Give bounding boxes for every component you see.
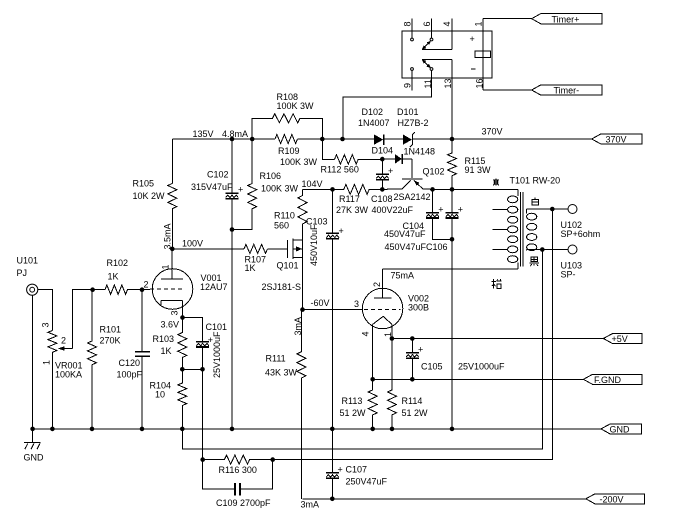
junction R116 right [270,457,275,462]
resistor R112 560 [322,139,382,164]
resistor R106 100K 3W [232,139,257,230]
tube V001 12AU7 envelope [152,269,193,310]
resistor R115 91 3W [448,139,457,189]
svg-text:Timer+: Timer+ [552,14,580,24]
svg-text:R111: R111 [266,354,286,364]
svg-text:450V47uFC106: 450V47uFC106 [385,242,448,252]
kanji orange marker [492,279,502,289]
svg-text:+: + [418,345,423,355]
svg-text:51 2W: 51 2W [402,408,429,418]
svg-text:560: 560 [274,221,289,231]
svg-text:C102: C102 [207,170,229,180]
transformer T101 primary winding [508,189,518,268]
svg-text:1K: 1K [161,346,172,356]
junction V001 grid node [140,287,145,292]
svg-text:4.8mA: 4.8mA [222,129,248,139]
junction GND C104/C106 [450,427,455,432]
resistor R101 270K [88,290,97,429]
svg-text:C107: C107 [346,465,368,475]
junction V002 pin4 / F.GND [370,377,375,382]
transistor Q102 2SA2142 PNP [382,159,432,189]
junction GND R104 [180,427,185,432]
relay common pin 4 with movable arm [422,19,452,50]
wire C101 node to feedback R116 [202,369,204,459]
svg-text:3: 3 [170,310,180,315]
relay contact pin 9 [411,68,414,91]
svg-text:25V1000uF: 25V1000uF [212,331,222,378]
svg-text:Q101: Q101 [277,261,299,271]
svg-text:3.5mA: 3.5mA [163,223,173,249]
svg-text:8: 8 [403,21,413,26]
svg-text:104V: 104V [302,179,323,189]
capacitor C101 25V1000uF electrolytic [183,318,214,370]
svg-text:270K: 270K [100,336,121,346]
junction SP- node [540,247,545,252]
svg-text:10: 10 [155,390,165,400]
wire relay pin16 to Timer- [483,89,532,91]
capacitor C102 315V47uF electrolytic [226,139,244,230]
svg-text:1: 1 [474,21,484,26]
wire -200V line [302,498,585,500]
svg-text:75mA: 75mA [391,271,415,281]
capacitor C120 100pF [135,290,150,429]
wire jack sleeve to GND [32,295,34,429]
relay common pin 13 with movable arm [422,59,452,78]
svg-text:100K 3W: 100K 3W [280,157,318,167]
svg-text:R117: R117 [339,194,360,204]
junction C102/R106 bottom [230,227,235,232]
wire jack to VR001 top [38,290,53,331]
connector flag +5V [603,334,642,345]
svg-text:+: + [458,205,463,215]
terminal U102 [568,205,577,214]
svg-text:GND: GND [610,425,631,435]
wire V002 pin4 to F.GND line [372,324,374,379]
svg-text:-200V: -200V [600,495,624,505]
junction V002 pin1 / +5V [390,336,395,341]
svg-text:16: 16 [475,78,485,88]
wire F.GND line [373,378,584,380]
svg-text:1K: 1K [245,263,256,273]
junction C107 at -200V [330,497,335,502]
svg-text:450V10uF: 450V10uF [309,224,319,266]
wire secondary top to U102 [527,208,568,210]
potentiometer VR001 100KA [48,290,93,429]
input jack U101 [27,284,38,295]
wire C102 bottom to GND rail [231,230,233,429]
junction R108/R106 node [250,137,255,142]
svg-text:GND: GND [24,453,45,463]
relay coil pins 1-16 [475,19,491,90]
junction C104 top [430,187,435,192]
svg-text:C101: C101 [206,322,228,332]
svg-text:1N4148: 1N4148 [404,147,436,157]
wire SP- return to star ground (line A) [182,250,542,450]
svg-text:1K: 1K [108,272,119,282]
svg-text:D102: D102 [362,107,384,117]
connector flag -200V [586,494,645,505]
svg-text:R110: R110 [274,211,295,221]
wire V002 plate to transformer primary [383,268,518,270]
coil polarity - [471,68,476,70]
junction GND C120 [140,427,145,432]
svg-text:+5V: +5V [612,334,628,344]
junction GND R113 [370,427,375,432]
svg-text:F.GND: F.GND [594,375,622,385]
kanji black marker [530,256,540,266]
transformer T101 secondary winding [527,209,537,251]
svg-text:+: + [238,184,243,194]
junction GND R101 [90,427,95,432]
svg-text:370V: 370V [482,127,503,137]
capacitor C106 450V47uF electrolytic [446,189,463,429]
wire 100V rail [172,248,244,250]
junction R115/C106 top [450,187,455,192]
svg-text:2SA2142: 2SA2142 [394,192,431,202]
svg-text:1N4007: 1N4007 [358,118,390,128]
svg-text:100KA: 100KA [55,370,82,380]
diode D104 1N4148 [382,154,412,164]
svg-text:1: 1 [42,360,52,365]
svg-text:SP-: SP- [561,270,576,280]
svg-text:300B: 300B [408,303,429,313]
junction C108 bottom [380,187,385,192]
svg-text:R114: R114 [402,396,423,406]
transformer core [521,192,524,267]
diode D102 1N4007 [374,134,403,144]
junction V001 cathode node [180,315,185,320]
svg-text:9: 9 [403,83,413,88]
resistor R108 (branch above rail) [252,114,322,139]
junction R103 bottom [180,367,185,372]
V002 filament [373,316,392,324]
wire V002 pin1 to +5V line [391,324,393,338]
capacitor C108 400V22uF electrolytic [376,159,393,189]
svg-text:10K 2W: 10K 2W [133,191,166,201]
svg-text:R113: R113 [342,396,363,406]
junction -60V node [300,307,305,312]
svg-text:4: 4 [361,331,371,336]
wire relay pin 13 down to 370V node [451,78,453,139]
junction D104 anode node [380,157,385,162]
svg-text:400V22uF: 400V22uF [372,205,414,215]
terminal U103 [568,245,577,254]
kanji white marker [532,198,538,205]
relay contact pin 11 [430,68,433,71]
svg-text:370V: 370V [606,135,627,145]
junction 100V node [170,247,175,252]
tube V002 300B envelope [362,288,402,328]
svg-text:R103: R103 [153,334,175,344]
junction C105 top [410,336,415,341]
svg-text:2: 2 [61,336,66,346]
svg-text:R112 560: R112 560 [321,164,359,174]
svg-text:100K 3W: 100K 3W [277,101,315,111]
resistor R114 51 2W [388,339,397,429]
svg-text:450V47uF: 450V47uF [384,229,426,239]
svg-text:2SJ181-S: 2SJ181-S [262,282,302,292]
svg-text:4: 4 [442,21,452,26]
svg-text:+: + [339,226,344,236]
svg-text:D101: D101 [397,107,419,117]
connector flag F.GND [583,374,642,385]
svg-text:Timer-: Timer- [554,86,580,96]
wire +5V line [392,338,604,340]
svg-text:C108: C108 [371,194,393,204]
capacitor C103 450V10uF electrolytic [326,189,344,429]
connector flag 370V [592,134,642,145]
relay contact pin 8 [411,19,414,41]
V001 plate [161,249,183,279]
transformer primary tap stubs [492,210,507,250]
junction C101 bottom [200,367,205,372]
svg-text:Q102: Q102 [423,167,445,177]
connector flag Timer+ [532,14,603,25]
wire feedback line R116 to SP+ (line B) [273,209,553,460]
svg-text:PJ: PJ [17,268,28,278]
resistor R116 300 [203,455,273,464]
relay K1 box [402,31,492,78]
svg-text:135V: 135V [193,129,214,139]
svg-text:+: + [338,464,343,474]
svg-text:C120: C120 [119,358,141,368]
svg-text:315V47uF: 315V47uF [191,182,233,192]
junction GND C103/C107 [330,427,335,432]
junction C103 top [330,187,335,192]
svg-text:3.6V: 3.6V [161,320,180,330]
junction SP+ node [550,207,555,212]
svg-text:100pF: 100pF [117,370,143,380]
junction C105 bottom [410,377,415,382]
svg-text:3: 3 [354,299,359,309]
resistor R105 10K 2W [168,139,177,249]
svg-text:25V1000uF: 25V1000uF [458,362,505,372]
junction GND VR001 [50,427,55,432]
svg-text:27K 3W: 27K 3W [336,205,369,215]
junction GND jack [30,427,35,432]
wire 135V rail [172,138,374,140]
resistor R111 43K 3W [297,310,306,499]
svg-text:R116 300: R116 300 [219,465,257,475]
resistor R104 10 [178,369,187,429]
wire cathode node bottom [182,368,202,370]
connector flag GND [601,424,642,435]
wire 370V rail to flag [452,138,592,140]
resistor R117 27K 3W [344,184,383,194]
V002 plate [374,269,392,298]
junction GND C102 [230,427,235,432]
junction R116 left [200,457,205,462]
svg-text:R101: R101 [100,325,122,335]
svg-text:R105: R105 [133,179,155,189]
resistor R102 1K [93,285,142,294]
capacitor C105 25V1000uF electrolytic [406,339,423,380]
svg-text:43K 3W: 43K 3W [265,368,298,378]
svg-text:+: + [438,205,443,215]
svg-text:100V: 100V [182,239,203,249]
svg-text:6: 6 [422,21,432,26]
svg-text:2: 2 [372,282,382,287]
connector flag Timer- [532,85,603,96]
svg-text:51 2W: 51 2W [340,408,367,418]
svg-text:2: 2 [144,280,149,290]
resistor R107 1K [244,244,287,253]
wire GND rail [33,428,601,430]
svg-text:SP+6ohm: SP+6ohm [561,229,601,239]
V002 grid (dashed) [364,309,401,311]
svg-text:T101 RW-20: T101 RW-20 [510,176,561,186]
capacitor C109 2700pF [203,460,273,496]
svg-text:+: + [470,34,475,44]
svg-text:U101: U101 [17,256,39,266]
junction GND R114 [390,427,395,432]
svg-text:3mA: 3mA [301,500,320,510]
MOSFET Q101 2SJ181-S [288,239,303,259]
junction R108 right node [320,137,325,142]
svg-text:R109: R109 [278,146,300,156]
resistor R110 560 [298,189,307,240]
junction C102 top [230,137,235,142]
svg-text:D104: D104 [372,146,394,156]
chassis ground symbol [24,429,40,449]
kanji yellow marker [493,178,499,185]
svg-text:HZ7B-2: HZ7B-2 [398,118,429,128]
svg-text:250V47uF: 250V47uF [346,477,388,487]
wire relay pin1 to Timer+ [483,18,532,20]
V001 grid (dashed) [142,288,184,291]
wire -60V to V002 grid [303,309,364,311]
wire 104V rail right [433,188,518,190]
svg-text:C105: C105 [421,362,443,372]
wire 104V rail left [303,188,344,190]
wire relay pin 11 to 135V rail [343,70,432,139]
svg-text:R106: R106 [260,171,282,181]
svg-text:+: + [388,166,393,176]
resistor R113 51 2W [368,379,377,429]
svg-text:1: 1 [161,264,171,269]
svg-text:C109 2700pF: C109 2700pF [216,498,271,508]
junction 370V node (R115/pin13) [450,137,455,142]
junction relay pin11 node [340,137,345,142]
wire Q101 source to -60V node [302,258,304,310]
svg-text:100K 3W: 100K 3W [261,184,299,194]
svg-text:12AU7: 12AU7 [200,282,228,292]
svg-text:3: 3 [41,322,51,327]
svg-text:-60V: -60V [311,298,330,308]
zener diode D101 HZ7B-2 [403,132,452,147]
resistor R103 1K [178,318,187,370]
wire secondary bottom to U103 [527,249,568,251]
svg-text:91 3W: 91 3W [465,165,492,175]
capacitor C107 250V47uF electrolytic [326,429,343,499]
capacitor C104 450V47uF electrolytic [426,189,452,239]
svg-text:R102: R102 [107,258,129,268]
junction R101/wiper node [90,287,95,292]
resistor R109 (on rail) [275,135,298,144]
junction C104/C106 bottom [450,237,455,242]
relay contact pin 6 [430,19,433,41]
V001 cathode [161,301,183,318]
